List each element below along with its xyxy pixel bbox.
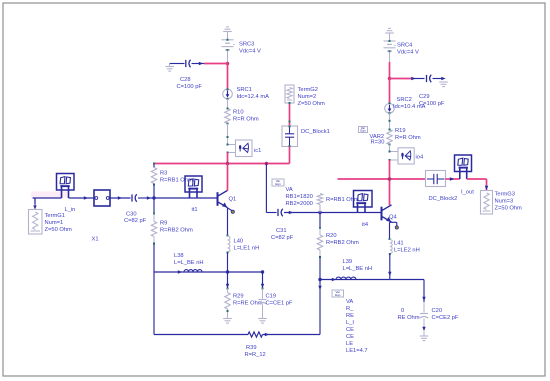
- svg-text:I_out: I_out: [461, 190, 474, 196]
- terminal TermG2: [285, 85, 294, 103]
- svg-text:VA: VA: [286, 187, 293, 193]
- svg-text:RE: RE: [346, 313, 354, 319]
- wire X1 to C30: [110, 197, 131, 199]
- svg-text:R9: R9: [160, 221, 167, 227]
- svg-text:Idc=10.4 mA: Idc=10.4 mA: [393, 104, 426, 110]
- svg-text:L_I: L_I: [346, 320, 354, 326]
- svg-text:L_in: L_in: [65, 207, 76, 213]
- wire Q4 emitter stub and node dot: [390, 221, 397, 223]
- ground (C19): [258, 318, 267, 320]
- capacitor C28: [185, 60, 187, 67]
- wire C30 to base node: [138, 197, 154, 199]
- terminal TermG1: [34, 198, 36, 205]
- wire C19 to ground: [262, 305, 264, 319]
- svg-text:X1: X1: [92, 237, 99, 243]
- svg-text:Z=50 Ohm: Z=50 Ohm: [45, 227, 73, 233]
- wire Q1 collector to bus: [227, 164, 229, 191]
- svg-text:it4: it4: [362, 222, 369, 228]
- variables badge VA 2: [332, 290, 344, 297]
- wire TermG2 to DC_Block1: [289, 103, 291, 126]
- capacitor C31: [277, 209, 279, 216]
- svg-text:SRC3: SRC3: [239, 42, 254, 48]
- ground (top of SRC4): [385, 32, 394, 34]
- svg-text:L=L_BE nH: L=L_BE nH: [174, 260, 204, 266]
- current probe ic1: [228, 144, 237, 146]
- wire R39 rail left segment: [154, 334, 248, 336]
- wire base node to Q1: [154, 197, 217, 199]
- svg-text:C=82 pF: C=82 pF: [271, 235, 294, 241]
- svg-text:L=L_BE nH: L=L_BE nH: [343, 266, 373, 272]
- wire bus down to C31: [265, 164, 267, 213]
- wire DC_Block2 to I_out: [446, 178, 460, 180]
- resistor R3: [151, 168, 156, 184]
- svg-text:LE: LE: [346, 341, 353, 347]
- svg-text:C28: C28: [180, 77, 191, 83]
- svg-text:RB2=2000: RB2=2000: [286, 201, 313, 207]
- svg-text:Z=50 Ohm: Z=50 Ohm: [495, 206, 523, 212]
- svg-text:L40: L40: [234, 239, 244, 245]
- resistor R19: [387, 130, 392, 145]
- transistor Q4: [381, 207, 383, 221]
- svg-text:Z=50 Ohm: Z=50 Ohm: [298, 101, 326, 107]
- svg-text:Q4: Q4: [389, 215, 397, 221]
- wire L40 to emitter rail: [227, 252, 229, 254]
- wire SRC1 to R10: [227, 99, 229, 109]
- variables badge VA: [272, 179, 284, 186]
- svg-text:L41: L41: [394, 241, 404, 247]
- svg-text:LE1=4.7: LE1=4.7: [346, 348, 368, 354]
- svg-text:L39: L39: [343, 259, 353, 265]
- inductor L38: [184, 270, 202, 272]
- voltage source SRC3: [222, 39, 234, 41]
- inductor L39: [336, 277, 356, 279]
- svg-text:Q1: Q1: [229, 197, 237, 203]
- node bus-C31 junction: [265, 162, 269, 166]
- wire ic1 to collector bus: [227, 153, 229, 164]
- capacitor C20: [423, 302, 425, 313]
- wire io4 to output bus: [389, 160, 391, 179]
- svg-text:CE: CE: [346, 327, 354, 333]
- subcircuit X1: [94, 190, 110, 206]
- ground (R29): [223, 318, 232, 320]
- node bus-Q4 junction: [388, 177, 392, 181]
- svg-text:DC_Block1: DC_Block1: [301, 129, 330, 135]
- current meter I_out: [455, 155, 472, 172]
- ground (top of SRC3): [223, 31, 232, 33]
- wire R39 rail right segment: [263, 334, 321, 336]
- svg-text:-: -: [233, 42, 235, 48]
- svg-text:C30: C30: [126, 212, 137, 218]
- svg-text:C19: C19: [266, 294, 277, 300]
- svg-text:C=CE2 pF: C=CE2 pF: [432, 315, 459, 321]
- svg-text:SRC2: SRC2: [397, 97, 412, 103]
- wire rail to C19: [262, 272, 264, 288]
- wire R19 to probe io4: [389, 145, 391, 152]
- wire node VCC2 down to SRC2: [389, 79, 391, 104]
- svg-text:RB1=1820: RB1=1820: [286, 194, 313, 200]
- svg-text:ic1: ic1: [254, 148, 261, 154]
- svg-text:TermG3: TermG3: [495, 192, 515, 198]
- svg-text:Eqn: Eqn: [335, 293, 341, 297]
- current source SRC2: [385, 104, 395, 114]
- wire R10 to probe ic1: [227, 124, 229, 145]
- wire DC_Block1 to bus: [289, 126, 291, 128]
- wire SRC3 to node VCC1: [227, 51, 229, 64]
- node VCC2 junction: [388, 77, 392, 81]
- wire node VCC1 down to SRC1: [227, 64, 229, 90]
- voltage source SRC4: [384, 40, 396, 42]
- wire R9 down to L38 rail: [153, 244, 155, 273]
- svg-text:L=LE1 nH: L=LE1 nH: [234, 246, 260, 252]
- svg-text:R_: R_: [346, 306, 354, 312]
- wire rail to R29: [227, 272, 229, 288]
- wire C28 branch magenta: [204, 63, 228, 65]
- capacitor C29: [426, 75, 428, 82]
- capacitor C30: [131, 194, 133, 201]
- svg-text:C31: C31: [276, 228, 287, 234]
- svg-text:R10: R10: [233, 110, 244, 116]
- resistor R stage2 RB1: [317, 194, 322, 205]
- svg-text:Num=2: Num=2: [298, 94, 317, 100]
- svg-text:R3: R3: [160, 171, 167, 177]
- wire L_in to X1: [69, 197, 95, 199]
- current meter it4: [354, 191, 373, 208]
- current probe io4: [390, 151, 399, 153]
- svg-text:R=R Ohm: R=R Ohm: [395, 135, 421, 141]
- svg-text:C=CE1 pF: C=CE1 pF: [266, 301, 293, 307]
- svg-text:R=R_12: R=R_12: [245, 352, 266, 358]
- ground (C20): [423, 330, 425, 336]
- svg-text:R20: R20: [326, 233, 337, 239]
- svg-text:SRC1: SRC1: [237, 87, 252, 93]
- svg-text:DC_Block2: DC_Block2: [429, 196, 458, 202]
- svg-text:R29: R29: [233, 294, 244, 300]
- wire SRC2 to R19: [389, 113, 391, 129]
- wire C31 to base node 2: [284, 212, 320, 214]
- svg-text:R=RB2 Ohm: R=RB2 Ohm: [160, 228, 193, 234]
- current meter it1: [185, 176, 202, 192]
- DC block DC_Block1: [282, 126, 298, 147]
- wire right riser to L39 rail: [319, 280, 321, 335]
- wire bus to R3: [153, 164, 155, 168]
- node bus-ic1 junction: [226, 162, 230, 166]
- svg-text:VA: VA: [346, 299, 353, 305]
- wire Q1 emitter to L40: [227, 208, 229, 236]
- svg-text:C=100 pF: C=100 pF: [177, 84, 203, 90]
- wire left drop to R39 rail: [153, 272, 155, 335]
- wire C28 branch navy: [192, 63, 205, 65]
- node C19-rail junction: [261, 270, 264, 273]
- wire base node 2 to Q4: [320, 212, 381, 214]
- resistor R29: [227, 289, 229, 293]
- wire R3 to R9: [153, 185, 155, 214]
- svg-text:L=LE2 nH: L=LE2 nH: [394, 248, 420, 254]
- svg-text:CE: CE: [346, 334, 354, 340]
- wire C29 branch magenta: [390, 78, 413, 80]
- terminal TermG3: [481, 191, 493, 215]
- svg-text:Num=3: Num=3: [495, 199, 514, 205]
- svg-text:R39: R39: [246, 345, 257, 351]
- svg-text:Num=1: Num=1: [45, 220, 64, 226]
- resistor R39: [248, 332, 263, 337]
- wire emitter rail stage1: [154, 271, 263, 273]
- resistor R10: [225, 109, 230, 124]
- svg-text:R=RB1 Ohm: R=RB1 Ohm: [160, 178, 193, 184]
- wire TermG1 to L_in probe: [33, 197, 62, 199]
- svg-text:TermG1: TermG1: [45, 213, 65, 219]
- svg-text:C=82 pF: C=82 pF: [124, 218, 147, 224]
- wire SRC4 to node VCC2: [389, 52, 391, 62]
- wire I_out to TermG3: [467, 178, 487, 180]
- current meter L_in: [57, 174, 75, 191]
- capacitor C19: [262, 289, 264, 299]
- wire Q4 emitter to L41: [389, 222, 391, 239]
- svg-text:Vdc=4 V: Vdc=4 V: [397, 50, 419, 56]
- svg-text:L38: L38: [174, 253, 184, 259]
- inductor L40: [228, 236, 230, 252]
- svg-text:SRC4: SRC4: [397, 43, 413, 49]
- node base1 junction: [152, 196, 155, 199]
- svg-text:Eqn: Eqn: [275, 182, 281, 186]
- transistor Q1: [217, 192, 219, 206]
- svg-text:RE Ohm: RE Ohm: [398, 315, 420, 321]
- svg-text:R=R Ohm: R=R Ohm: [233, 117, 259, 123]
- svg-text:R=30: R=30: [371, 140, 385, 146]
- svg-text:C20: C20: [432, 308, 443, 314]
- svg-text:R19: R19: [395, 128, 406, 134]
- resistor R20: [319, 213, 321, 229]
- node R20-rail junction: [318, 278, 321, 281]
- svg-text:Eqn: Eqn: [360, 128, 366, 132]
- svg-text:R=RB2 Ohm: R=RB2 Ohm: [326, 240, 359, 246]
- DC block DC_Block2: [426, 171, 446, 187]
- variables badge VAR2: [359, 127, 368, 133]
- svg-text:Idc=12.4 mA: Idc=12.4 mA: [237, 94, 270, 100]
- svg-text:Vdc=4 V: Vdc=4 V: [239, 49, 261, 55]
- ground (C28): [169, 64, 171, 67]
- wire Q4 collector up to output bus: [389, 179, 391, 205]
- wire input highlight halo: [31, 192, 69, 198]
- wire C20 to ground: [423, 319, 425, 330]
- wire emitter rail stage2: [320, 279, 390, 281]
- wire L41 to emitter rail 2: [389, 254, 391, 280]
- wire Q1 emitter stub and node dot: [228, 208, 233, 211]
- svg-text:0: 0: [401, 308, 404, 314]
- svg-text:-: -: [394, 43, 396, 49]
- svg-text:io4: io4: [416, 155, 424, 161]
- wire R20 to L39 rail: [319, 257, 321, 280]
- ground (C29): [439, 81, 448, 83]
- wire collector bus stage1: [154, 163, 290, 165]
- wire output bus: [338, 178, 426, 180]
- svg-text:C29: C29: [419, 94, 430, 100]
- svg-text:TermG2: TermG2: [298, 87, 318, 93]
- node L40-rail junction: [226, 270, 229, 273]
- wire C29 branch navy: [411, 77, 415, 80]
- node VCC1 junction: [226, 62, 230, 66]
- node base2 junction: [318, 211, 321, 214]
- inductor L41: [390, 240, 392, 254]
- resistor R9: [153, 214, 155, 222]
- current source SRC1: [223, 89, 233, 99]
- svg-text:it1: it1: [192, 207, 198, 213]
- wire L41 rail to C20: [390, 279, 424, 281]
